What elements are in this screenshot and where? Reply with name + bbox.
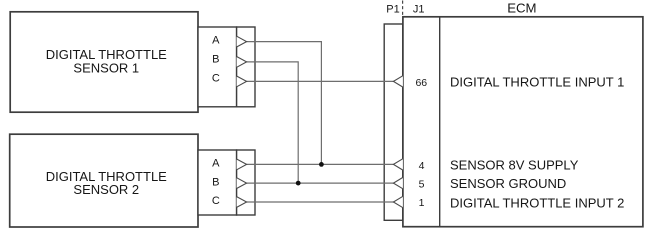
svg-text:SENSOR 8V SUPPLY: SENSOR 8V SUPPLY <box>450 158 579 173</box>
contact arrow: sensor 2 pin A <box>237 159 247 170</box>
wire: sensor 1 pin A to 8V supply net (horizontal + vertical drop) <box>246 42 321 165</box>
contact arrow: sensor 1 pin A <box>237 36 247 47</box>
svg-text:SENSOR 2: SENSOR 2 <box>73 182 139 197</box>
svg-text:B: B <box>212 53 219 65</box>
P1/J1 mating plane (dashed) <box>402 1 404 16</box>
sensor box: DIGITAL THROTTLE SENSOR 2 <box>10 134 198 227</box>
sensor 1 connector pin-letter block <box>198 27 237 107</box>
svg-text:5: 5 <box>419 178 425 190</box>
contact arrow: sensor 2 pin B <box>237 178 247 189</box>
wire: sensor 2 pin A to ECM pin 4 (8V supply net) <box>246 163 394 165</box>
svg-text:66: 66 <box>415 77 427 89</box>
contact arrow: ECM pin 4 <box>393 159 403 170</box>
junction: sensor ground net <box>296 181 301 186</box>
svg-text:DIGITAL THROTTLE INPUT 2: DIGITAL THROTTLE INPUT 2 <box>450 195 624 210</box>
J1 pin column divider <box>439 17 441 227</box>
wire: sensor 1 pin C to ECM pin 66 <box>246 80 394 82</box>
contact arrow: sensor 1 pin C <box>237 76 247 87</box>
svg-text:C: C <box>212 73 220 85</box>
svg-text:1: 1 <box>419 197 425 209</box>
sensor 1 connector contact block <box>237 27 255 107</box>
wire: sensor 1 pin B to sensor ground net (horizontal + vertical drop) <box>246 62 298 183</box>
svg-text:SENSOR 1: SENSOR 1 <box>73 60 139 75</box>
contact arrow: sensor 2 pin C <box>237 197 247 208</box>
contact arrow: ECM pin 1 <box>393 196 403 207</box>
svg-text:ECM: ECM <box>507 1 536 16</box>
sensor 2 connector pin-letter block <box>198 150 237 215</box>
svg-text:C: C <box>212 195 220 207</box>
svg-text:P1: P1 <box>386 3 399 15</box>
svg-text:DIGITAL THROTTLE INPUT 1: DIGITAL THROTTLE INPUT 1 <box>450 74 624 89</box>
wire: sensor 2 pin B to ECM pin 5 (sensor ground net) <box>246 182 394 184</box>
junction: 8V supply net <box>319 162 324 167</box>
wire: sensor 2 pin C to ECM pin 1 <box>246 201 394 203</box>
svg-text:A: A <box>212 35 220 47</box>
svg-text:B: B <box>212 176 219 188</box>
contact arrow: sensor 1 pin B <box>237 57 247 68</box>
svg-text:J1: J1 <box>413 3 425 15</box>
ECM box <box>403 17 643 227</box>
svg-text:A: A <box>212 158 220 170</box>
svg-text:SENSOR GROUND: SENSOR GROUND <box>450 176 566 191</box>
svg-text:4: 4 <box>419 160 425 172</box>
sensor 2 connector contact block <box>237 150 255 215</box>
sensor box: DIGITAL THROTTLE SENSOR 1 <box>10 12 198 112</box>
P1 connector shell <box>384 24 403 220</box>
contact arrow: ECM pin 5 <box>393 177 403 188</box>
contact arrow: ECM pin 66 <box>393 76 403 87</box>
